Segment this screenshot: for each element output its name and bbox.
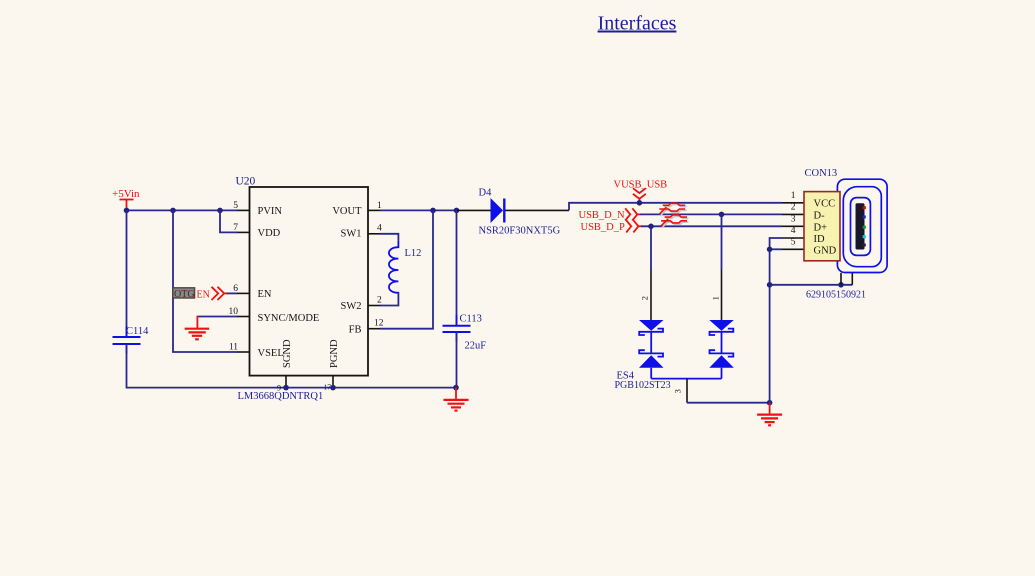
- svg-text:VOUT: VOUT: [332, 206, 362, 217]
- svg-text:PGB102ST23: PGB102ST23: [615, 380, 671, 391]
- net label OTG (highlighted): [173, 288, 195, 300]
- port USB_D_N: [579, 208, 641, 221]
- USB receptacle drawing: [837, 179, 887, 272]
- wire FB loop: [380, 210, 433, 328]
- wire VOUT: [380, 209, 457, 211]
- wire ES4 bottom bar: [651, 378, 721, 380]
- svg-text:FB: FB: [349, 325, 362, 336]
- pin 1 lead: [782, 191, 804, 203]
- svg-text:GND: GND: [814, 246, 837, 257]
- svg-text:ID: ID: [814, 234, 825, 245]
- op-amp U20 body: [236, 176, 369, 403]
- svg-text:LM3668QDNTRQ1: LM3668QDNTRQ1: [238, 391, 324, 402]
- svg-text:SW2: SW2: [341, 301, 362, 312]
- pin 3 lead: [782, 215, 804, 227]
- svg-text:VUSB_USB: VUSB_USB: [614, 180, 668, 191]
- svg-text:D-: D-: [814, 210, 826, 221]
- ground (C113): [444, 388, 469, 411]
- svg-text:7: 7: [233, 223, 238, 233]
- svg-text:Interfaces: Interfaces: [598, 13, 677, 35]
- pin 6 EN: [233, 284, 272, 300]
- svg-text:1: 1: [791, 191, 796, 201]
- svg-text:CON13: CON13: [805, 168, 838, 179]
- node VUSB junction: [637, 200, 643, 206]
- node FB branch: [430, 208, 436, 214]
- pin 4 lead: [782, 226, 804, 238]
- svg-text:VSEL: VSEL: [258, 348, 284, 359]
- wire C114 bottom to ground rail: [127, 344, 457, 388]
- wire C114 top: [126, 210, 128, 337]
- svg-text:5: 5: [233, 201, 238, 211]
- svg-text:17: 17: [324, 383, 332, 392]
- svg-text:12: 12: [374, 319, 384, 329]
- svg-text:6: 6: [233, 284, 238, 294]
- svg-text:22uF: 22uF: [465, 341, 487, 352]
- pin 9 SGND: [277, 339, 293, 392]
- pin 4 SW1: [341, 224, 383, 240]
- svg-text:SW1: SW1: [341, 229, 362, 240]
- ground (main): [757, 403, 782, 426]
- svg-text:EN: EN: [258, 289, 272, 300]
- svg-text:9: 9: [277, 383, 281, 392]
- power port +5Vin: [112, 188, 140, 210]
- pin 10 SYNC/MODE: [229, 307, 320, 324]
- port USB_D_P: [581, 220, 642, 233]
- svg-text:3: 3: [672, 389, 682, 393]
- svg-text:L12: L12: [405, 248, 422, 259]
- port EN: [197, 287, 228, 301]
- connector CON13 body: [804, 168, 866, 300]
- pin 11 VSEL: [229, 343, 284, 359]
- inductor L12: [389, 241, 421, 294]
- node junction VSEL branch: [170, 208, 176, 214]
- wire USB_D_P: [641, 225, 782, 227]
- node D_N branch: [719, 212, 725, 218]
- title Interfaces: [598, 13, 677, 35]
- ground (SYNC/MODE): [185, 316, 210, 340]
- wire VDD branch: [220, 210, 238, 232]
- wire C113 bottom: [456, 332, 458, 388]
- differential pair directive (lower): [661, 215, 689, 228]
- TVS diode ES4 left pair: [639, 320, 664, 379]
- wire GND pin5: [770, 248, 782, 250]
- wire shield run: [770, 284, 853, 286]
- svg-text:2: 2: [377, 295, 382, 305]
- power port VUSB_USB: [614, 180, 668, 203]
- wire USB_D_N: [640, 213, 782, 215]
- svg-text:NSR20F30NXT5G: NSR20F30NXT5G: [479, 226, 561, 237]
- svg-text:1: 1: [711, 296, 721, 300]
- wire VUSB rail: [569, 203, 782, 211]
- svg-text:2: 2: [791, 203, 796, 213]
- diode D4: [457, 188, 569, 237]
- svg-text:VCC: VCC: [814, 199, 836, 210]
- node ground rail junction: [453, 385, 459, 391]
- capacitor C113: [443, 210, 487, 351]
- svg-text:4: 4: [791, 226, 796, 236]
- TVS diode ES4 right pair: [709, 320, 734, 379]
- wire SYNC/MODE to ground: [198, 316, 239, 318]
- svg-text:11: 11: [229, 343, 238, 353]
- svg-text:10: 10: [229, 307, 239, 317]
- node D_P branch: [648, 224, 654, 230]
- wire ES4 pin1: [721, 214, 723, 270]
- wire EN to pin6: [227, 292, 239, 294]
- pin 3 ES4: [672, 379, 687, 403]
- node shield tab junction: [838, 282, 844, 288]
- pin 5 lead: [782, 238, 804, 250]
- pin 12 FB: [349, 319, 384, 336]
- svg-text:3: 3: [791, 215, 796, 225]
- pin 7 VDD: [233, 223, 280, 239]
- differential pair directive (upper): [659, 203, 687, 216]
- svg-text:2: 2: [640, 296, 650, 300]
- wire ID pin4: [770, 238, 782, 249]
- svg-text:USB_D_N: USB_D_N: [579, 210, 626, 221]
- wire +5Vin rail to PVIN: [127, 209, 239, 211]
- pin 5 PVIN: [233, 201, 282, 217]
- svg-text:D+: D+: [814, 222, 828, 233]
- wire L12 to SW2: [380, 293, 398, 305]
- svg-text:U20: U20: [236, 176, 256, 188]
- svg-text:C114: C114: [126, 326, 149, 337]
- pin 1 VOUT: [332, 201, 382, 217]
- svg-text:629105150921: 629105150921: [806, 289, 866, 300]
- node PGND junction: [330, 385, 336, 391]
- wire VSEL branch: [173, 210, 238, 352]
- wire GND riser: [769, 249, 771, 402]
- svg-text:EN: EN: [197, 289, 210, 300]
- wire ES4 pin3 to ground: [687, 402, 770, 404]
- node ID/GND junction: [767, 247, 773, 253]
- svg-text:5: 5: [791, 238, 796, 248]
- svg-text:USB_D_P: USB_D_P: [581, 222, 626, 233]
- pin 2 lead: [782, 203, 804, 215]
- svg-text:SYNC/MODE: SYNC/MODE: [258, 313, 320, 324]
- svg-text:+5Vin: +5Vin: [112, 188, 140, 200]
- capacitor C114: [113, 326, 150, 354]
- node junction +5Vin: [124, 208, 130, 214]
- wire ES4 pin2: [650, 226, 652, 270]
- pin 2 SW2: [341, 295, 383, 312]
- svg-text:4: 4: [377, 224, 382, 234]
- ES4 labels: [615, 371, 671, 391]
- node shield junction: [767, 282, 773, 288]
- svg-text:D4: D4: [479, 188, 493, 199]
- svg-text:PVIN: PVIN: [258, 206, 283, 217]
- wire SW1 to L12: [380, 234, 398, 241]
- svg-text:PGND: PGND: [329, 339, 340, 368]
- node SGND junction: [283, 385, 289, 391]
- node ground junction: [767, 400, 773, 406]
- svg-text:OTG: OTG: [174, 289, 195, 300]
- svg-text:C113: C113: [460, 314, 482, 325]
- shield tab pins: [841, 273, 852, 285]
- node junction VDD branch: [217, 208, 223, 214]
- node C113 branch: [454, 208, 460, 214]
- svg-text:VDD: VDD: [258, 228, 281, 239]
- pin 17 PGND: [324, 339, 341, 392]
- svg-text:SGND: SGND: [282, 339, 293, 368]
